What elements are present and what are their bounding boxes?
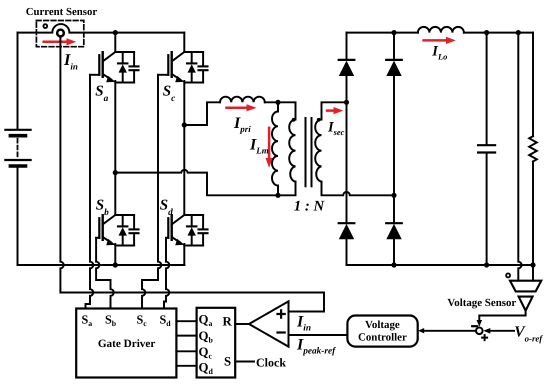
summing plus sign [482, 335, 487, 340]
junction node: output capacitor top [484, 30, 489, 35]
wire latch S input to clock [235, 361, 254, 363]
IGBT S_c [158, 33, 185, 125]
wire bottom rail primary [18, 264, 185, 266]
junction node: bridge right leg top rail [391, 30, 396, 35]
svg-text:ILm: ILm [249, 137, 269, 156]
SR latch box [197, 308, 236, 378]
wire summing junction to voltage controller [424, 330, 476, 332]
wire gate S_c to driver [142, 75, 161, 309]
transformer secondary winding [315, 120, 321, 182]
red arrow I_sec [327, 107, 343, 114]
voltage sensor triangle [519, 297, 533, 311]
voltage sensor attenuator symbol (trapezoid) [510, 281, 541, 292]
junction node: S_c/S_d midpoint (phase leg B) [182, 122, 187, 127]
comparator plus symbol [278, 310, 285, 317]
inductor L_lk (leakage) [220, 97, 265, 103]
wire bottom rail secondary [347, 264, 534, 266]
wire secondary bottom to bridge (hops left leg) [322, 182, 395, 196]
snubber loop S_d (diode + capacitor) [184, 215, 207, 246]
junction node: load bottom / sensor tap [530, 262, 535, 267]
red arrow I_Lm [266, 128, 273, 168]
polarity dot: transformer secondary [317, 118, 321, 122]
wire comparator output to latch R [235, 323, 249, 325]
wire comparator minus input (I_peak-ref) [289, 334, 348, 336]
comparator minus symbol [278, 331, 285, 333]
junction node: S_b emitter on negative rail [113, 262, 118, 267]
transformer primary winding [289, 120, 295, 182]
IGBT S_b [96, 173, 115, 265]
inductor L_m (magnetizing branch) [272, 102, 278, 195]
svg-text:Clock: Clock [256, 355, 286, 369]
summing junction [476, 328, 483, 335]
svg-text:Isec: Isec [327, 119, 345, 137]
junction node: bridge right leg bottom rail [391, 262, 396, 267]
svg-text:Sa: Sa [95, 83, 108, 104]
svg-text:Sc: Sc [137, 313, 148, 329]
wire top rail primary with hump over current sensor [18, 24, 185, 33]
svg-text:Qb: Qb [199, 329, 214, 345]
junction node: output capacitor bottom [484, 262, 489, 267]
svg-text:ILo: ILo [431, 44, 447, 62]
wire gate S_d to driver [164, 238, 169, 309]
junction node: voltage sensor tap on output rail [516, 30, 521, 35]
svg-text:Iin: Iin [296, 314, 311, 334]
svg-text:Iin: Iin [63, 50, 78, 72]
voltage sensor polarity circle [506, 273, 510, 277]
svg-text:Controller: Controller [358, 332, 407, 344]
red arrow I_in (current sensor) [44, 38, 76, 45]
red arrow I_Lo [424, 37, 456, 44]
svg-text:Gate Driver: Gate Driver [98, 338, 155, 350]
svg-text:Voltage: Voltage [365, 319, 400, 331]
junction node: S_a collector on positive rail [113, 30, 118, 35]
svg-text:Qc: Qc [199, 345, 213, 361]
svg-text:Qa: Qa [199, 313, 213, 329]
comparator U1 [249, 301, 289, 346]
junction node: magnetizing branch bottom [275, 193, 280, 198]
wire bottom rail to voltage sensor [532, 265, 534, 281]
wire voltage sensor output to summing junction [479, 311, 525, 321]
svg-text:Sc: Sc [163, 83, 175, 104]
snubber loop S_b (diode + capacitor) [115, 215, 138, 246]
wire secondary top rail [347, 32, 418, 34]
svg-text:Current Sensor: Current Sensor [26, 6, 98, 18]
capacitor C_o [478, 33, 495, 265]
svg-text:1 : N: 1 : N [294, 199, 326, 215]
junction node: secondary bottom to bridge right leg [391, 193, 396, 198]
svg-text:R: R [223, 314, 233, 328]
wire top rail to load [464, 32, 533, 34]
svg-text:Sd: Sd [160, 313, 172, 329]
diode bridge right leg with D2 (top) and D4 (bottom) [386, 33, 402, 265]
svg-text:Voltage Sensor: Voltage Sensor [447, 297, 516, 309]
current sensor CT [36, 21, 83, 47]
polarity dot: transformer primary [292, 118, 296, 122]
battery V_in [5, 33, 30, 265]
wires gate driver to latch (Q_a..Q_d) [176, 320, 196, 322]
voltage controller box [347, 316, 417, 347]
svg-text:Ipeak-ref: Ipeak-ref [296, 337, 336, 357]
junction node: magnetizing branch top [275, 100, 280, 105]
wire V_o-ref to summing junction [490, 330, 514, 332]
wire midpoint S_a/S_b to transformer bottom [115, 170, 295, 195]
wire gate S_a to driver (hops rail and I_in line) [86, 75, 94, 309]
resistor R_load [529, 33, 537, 265]
IGBT S_d [166, 125, 185, 265]
svg-text:Sa: Sa [82, 313, 93, 329]
wire gate S_b to driver [96, 238, 114, 309]
snubber loop S_c (diode + capacitor) [184, 52, 207, 83]
junction node: S_a/S_b midpoint (phase leg A) [113, 170, 118, 175]
junction node: secondary top to bridge left leg [344, 100, 349, 105]
svg-text:Ipri: Ipri [233, 115, 251, 134]
svg-text:Sb: Sb [105, 313, 117, 329]
summing minus sign [472, 325, 477, 327]
svg-text:S: S [224, 354, 231, 368]
diode bridge left leg with D1 (top) and D3 (bottom) [339, 33, 355, 265]
wire secondary top to bridge [322, 102, 347, 119]
snubber loop S_a (diode + capacitor) [115, 52, 138, 83]
wire inductor to magnetizing node [265, 102, 296, 119]
svg-text:Qd: Qd [199, 361, 214, 377]
transformer core [306, 118, 312, 186]
inductor L_o [418, 27, 464, 33]
svg-text:Sd: Sd [160, 197, 173, 218]
wire current sensor output I_in sense line [60, 37, 324, 312]
wire voltage sensor tap from top rail (hops bottom rail) [518, 33, 521, 281]
red arrow I_pri [227, 104, 257, 111]
wire S_c emitter node to transformer top [184, 102, 220, 125]
IGBT S_a [90, 33, 116, 173]
gate driver box [76, 309, 176, 378]
svg-text:Vo-ref: Vo-ref [514, 323, 543, 343]
